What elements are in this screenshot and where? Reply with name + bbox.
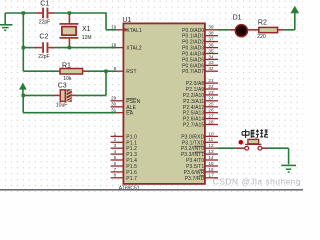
- background grid: [0, 0, 303, 193]
- pin 8 P1.7 (left): [111, 173, 138, 182]
- pin 23 P2.2/A10 (right): [183, 90, 218, 99]
- wire R1 to RST pin: [88, 70, 117, 72]
- pin 1 P1.0 (left): [111, 131, 138, 140]
- svg-text:2: 2: [114, 137, 117, 142]
- pin 38 P0.1/AD1 (right): [182, 31, 218, 40]
- pin 24 P2.3/A11 (right): [183, 96, 218, 105]
- svg-text:22: 22: [208, 84, 214, 89]
- svg-text:26: 26: [208, 108, 214, 113]
- pin 34 P0.5/AD5 (right): [182, 54, 218, 63]
- node: VCC/C3 junction: [22, 94, 25, 97]
- svg-text:10uF: 10uF: [56, 102, 67, 108]
- svg-text:10k: 10k: [63, 76, 72, 82]
- node: rail/C2 junction: [22, 46, 25, 49]
- pin 29 PSEN (left): [111, 96, 141, 105]
- wire P3.2 to button: [218, 147, 237, 149]
- wire R2 to VCC: [284, 13, 295, 30]
- svg-text:U1: U1: [122, 17, 131, 24]
- wire C2 to XTAL2 pin: [55, 47, 117, 49]
- svg-text:C3: C3: [58, 83, 67, 90]
- svg-text:13: 13: [208, 149, 214, 154]
- bottom border line: [0, 189, 303, 191]
- pin 21 P2.0/A8 (right): [186, 78, 218, 87]
- svg-text:RST: RST: [126, 69, 136, 75]
- pin 31 EA (left): [111, 108, 134, 117]
- svg-text:22pF: 22pF: [38, 54, 49, 60]
- svg-text:22pF: 22pF: [39, 19, 50, 25]
- svg-text:18: 18: [111, 43, 117, 48]
- pin 16 P3.6/WR (right): [184, 167, 218, 176]
- pin 25 P2.4/A12 (right): [183, 102, 218, 111]
- svg-text:31: 31: [111, 108, 117, 113]
- svg-text:CSDN @Jia shuheng: CSDN @Jia shuheng: [213, 176, 301, 186]
- crystal X1 12M: [60, 14, 92, 48]
- pin 36 P0.3/AD3 (right): [182, 43, 218, 52]
- pin 13 P3.3/INT1 (right): [181, 149, 218, 158]
- svg-text:P2.7/A15: P2.7/A15: [183, 123, 204, 129]
- wire VCC rail to EA pin: [23, 95, 116, 112]
- wire ground to C1: [5, 12, 35, 14]
- wire C3 to VCC rail: [23, 94, 53, 96]
- svg-text:P3.7/RD: P3.7/RD: [185, 176, 205, 182]
- pin 7 P1.6 (left): [111, 167, 138, 176]
- svg-text:21: 21: [208, 78, 214, 83]
- capacitor C2 22pF: [23, 33, 54, 60]
- left rail down: [22, 13, 24, 71]
- svg-text:R1: R1: [62, 63, 71, 70]
- pin 30 ALE (left): [111, 102, 137, 111]
- pin 28 P2.7/A15 (right): [183, 119, 218, 128]
- capacitor C1 22pF: [35, 1, 54, 26]
- svg-text:29: 29: [111, 96, 117, 101]
- resistor R1 10k: [59, 63, 88, 82]
- svg-text:33: 33: [208, 60, 214, 65]
- wire C1 to XTAL1 pin: [55, 12, 117, 30]
- wire button to ground: [267, 148, 288, 164]
- node: top rail junction: [22, 11, 25, 14]
- pin 19 XTAL1 (left): [111, 25, 142, 34]
- svg-text:39: 39: [208, 25, 214, 30]
- pin 4 P1.3 (left): [111, 149, 138, 158]
- capacitor C3 10uF: [54, 83, 78, 109]
- svg-text:30: 30: [111, 102, 117, 107]
- svg-text:1: 1: [114, 131, 117, 136]
- node: RST/C3 junction: [104, 70, 107, 73]
- wire P0.0 to D1: [218, 29, 230, 31]
- svg-text:25: 25: [208, 102, 214, 107]
- svg-text:XTAL2: XTAL2: [126, 46, 142, 52]
- pin 9 RST (left): [111, 66, 137, 75]
- pin 39 P0.0/AD0 (right): [182, 25, 218, 34]
- svg-text:5: 5: [114, 155, 117, 160]
- svg-text:34: 34: [208, 54, 214, 59]
- pin 6 P1.5 (left): [111, 161, 138, 170]
- pin 35 P0.4/AD4 (right): [182, 48, 218, 57]
- svg-text:C1: C1: [40, 1, 49, 8]
- power VCC (top right): [291, 6, 299, 12]
- svg-text:4: 4: [114, 149, 117, 154]
- pin 18 XTAL2 (left): [111, 43, 142, 52]
- svg-text:23: 23: [208, 90, 214, 95]
- chip U1 AT89C51 body: [119, 17, 205, 191]
- svg-text:37: 37: [208, 37, 214, 42]
- pin 26 P2.5/A13 (right): [183, 108, 218, 117]
- ground (right): [281, 165, 296, 172]
- svg-text:36: 36: [208, 43, 214, 48]
- svg-text:15: 15: [208, 161, 214, 166]
- node: crystal bottom junction: [68, 46, 71, 49]
- svg-text:7: 7: [114, 167, 117, 172]
- pin 32 P0.7/AD7 (right): [182, 66, 218, 75]
- svg-text:6: 6: [114, 161, 117, 166]
- svg-text:X1: X1: [82, 26, 91, 33]
- pin 15 P3.5/T1 (right): [186, 161, 218, 170]
- svg-text:24: 24: [208, 96, 214, 101]
- label interrupt-key (CJK): [242, 129, 268, 138]
- svg-text:27: 27: [208, 114, 214, 119]
- ground (top left): [0, 13, 13, 30]
- pin 37 P0.2/AD2 (right): [182, 37, 218, 46]
- pin 17 P3.7/RD (right): [185, 173, 218, 182]
- node: crystal top junction: [68, 11, 71, 14]
- svg-text:38: 38: [208, 31, 214, 36]
- pin 11 P3.1/TXD (right): [182, 137, 218, 146]
- wire RST junction down to C3: [77, 71, 106, 95]
- svg-text:10: 10: [208, 131, 214, 136]
- resistor R2 220: [257, 20, 284, 40]
- svg-text:28: 28: [208, 119, 214, 124]
- svg-text:P1.7: P1.7: [126, 176, 137, 182]
- pin 22 P2.1/A9 (right): [186, 84, 218, 93]
- svg-text:3: 3: [114, 143, 117, 148]
- svg-text:35: 35: [208, 48, 214, 53]
- svg-text:16: 16: [208, 167, 214, 172]
- LED D1: [230, 14, 259, 37]
- pin 3 P1.2 (left): [111, 143, 138, 152]
- svg-text:9: 9: [114, 66, 117, 71]
- pin 33 P0.6/AD6 (right): [182, 60, 218, 69]
- svg-text:XTAL1: XTAL1: [126, 28, 142, 34]
- button (interrupt key): [236, 139, 267, 150]
- power VCC (left): [20, 83, 27, 95]
- pin 10 P3.0/RXD (right): [181, 131, 218, 140]
- pin 12 P3.2/INT0 (right): [181, 143, 218, 152]
- svg-text:12M: 12M: [82, 35, 92, 41]
- pin 19 XTAL1 arrow marker: [124, 28, 127, 32]
- svg-text:11: 11: [208, 137, 213, 142]
- pin 2 P1.1 (left): [111, 137, 138, 146]
- svg-text:P0.7/AD7: P0.7/AD7: [182, 69, 204, 75]
- svg-text:220: 220: [257, 34, 266, 40]
- pin 27 P2.6/A14 (right): [183, 114, 218, 123]
- svg-text:12: 12: [208, 143, 214, 148]
- pin 14 P3.4/T0 (right): [186, 155, 218, 164]
- wire rail to R1: [23, 70, 58, 72]
- svg-text:R2: R2: [258, 20, 267, 27]
- svg-text:C2: C2: [39, 33, 48, 40]
- pin 5 P1.4 (left): [111, 155, 138, 164]
- svg-text:14: 14: [208, 155, 214, 160]
- svg-text:8: 8: [114, 173, 117, 178]
- svg-text:D1: D1: [233, 14, 242, 21]
- svg-text:EA: EA: [126, 111, 133, 117]
- svg-text:32: 32: [208, 66, 214, 71]
- svg-text:19: 19: [111, 25, 117, 30]
